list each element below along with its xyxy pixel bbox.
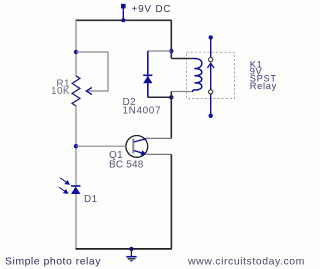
wire: coil top stub bbox=[171, 58, 193, 60]
terminal +9V square bbox=[121, 4, 126, 9]
wire: left vertical bottom (D1 to bottom rail) bbox=[75, 194, 77, 249]
emitter diagonal bbox=[134, 151, 145, 154]
photodiode D1 bbox=[71, 186, 81, 194]
wire: collector vertical bbox=[170, 97, 172, 138]
wire: base lead bbox=[76, 145, 126, 147]
wire: D2 bottom branch bbox=[148, 96, 172, 98]
wire: wiper loop bbox=[76, 52, 108, 91]
wire: +9V stub bbox=[122, 7, 124, 20]
wire: emitter lead bbox=[147, 153, 172, 155]
node: top rail junction bbox=[121, 18, 125, 22]
ground bbox=[126, 247, 136, 262]
wire: top rail bbox=[76, 19, 172, 21]
node: D2 bottom junction bbox=[169, 95, 173, 99]
light arrow 1 bbox=[60, 178, 69, 185]
wire: emitter vertical to bottom rail bbox=[170, 154, 172, 249]
wire: switch top lead bbox=[210, 37, 212, 57]
svg-text:+9V DC: +9V DC bbox=[132, 4, 172, 15]
svg-text:Relay: Relay bbox=[250, 81, 277, 91]
relay dashed box bbox=[187, 52, 235, 98]
switch movable contact with arrow bbox=[210, 64, 212, 90]
wire: bottom rail bbox=[76, 248, 173, 250]
svg-text:1N4007: 1N4007 bbox=[123, 105, 162, 116]
wire: collector lead bbox=[146, 137, 171, 139]
svg-text:BC 548: BC 548 bbox=[109, 160, 144, 171]
diode D2 symbol bbox=[143, 75, 152, 83]
svg-text:www.circuitstoday.com: www.circuitstoday.com bbox=[187, 255, 305, 267]
wire: switch bottom lead bbox=[210, 94, 212, 116]
wire: right vertical top (rail to coil top) bbox=[170, 20, 172, 58]
relay switch: top terminal dot bbox=[209, 35, 213, 39]
node: base junction bbox=[74, 144, 78, 148]
relay switch bottom terminal dot bbox=[209, 114, 213, 118]
svg-text:D1: D1 bbox=[84, 194, 98, 205]
coil curl dots bbox=[194, 68, 196, 70]
svg-text:10K: 10K bbox=[51, 86, 70, 97]
wire: coil bottom to D2 junction bbox=[170, 92, 172, 98]
switch bottom contact circle bbox=[209, 90, 213, 94]
diode D2 branch vertical bbox=[147, 51, 149, 97]
base bar bbox=[132, 139, 134, 154]
transistor Q1 bbox=[126, 136, 148, 158]
light arrow 2 bbox=[59, 187, 68, 193]
resistor R1 zigzag bbox=[72, 76, 80, 106]
wire: D2 top branch bbox=[148, 50, 172, 52]
svg-text:Simple photo relay: Simple photo relay bbox=[5, 256, 101, 268]
node: D2 top junction bbox=[169, 49, 173, 53]
switch top contact circle bbox=[209, 58, 213, 62]
wire: left vertical top (rail to R1) bbox=[75, 20, 77, 76]
wiper arrowhead bbox=[86, 87, 92, 94]
wire: left vertical mid (R1 to D1) bbox=[75, 106, 77, 186]
node: wiper tap junction bbox=[74, 50, 78, 54]
emitter arrowhead bbox=[141, 150, 147, 155]
collector diagonal bbox=[134, 138, 147, 142]
wire: coil bottom stub bbox=[171, 91, 192, 93]
circle bbox=[126, 136, 148, 158]
relay coil K1 bbox=[192, 58, 201, 91]
